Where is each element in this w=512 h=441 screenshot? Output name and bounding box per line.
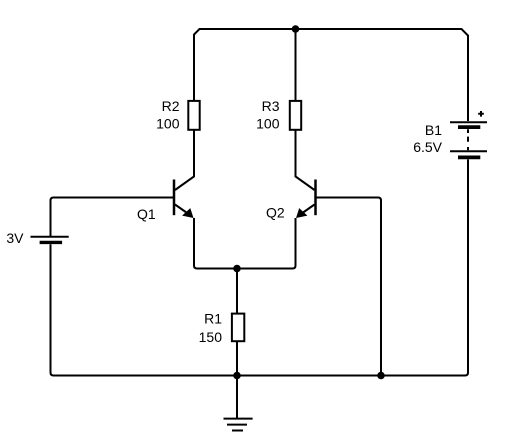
svg-text:Q1: Q1 xyxy=(137,206,156,222)
svg-text:3V: 3V xyxy=(6,230,24,246)
svg-text:Q2: Q2 xyxy=(266,205,285,221)
svg-text:R1: R1 xyxy=(204,311,222,327)
svg-text:R3: R3 xyxy=(262,98,280,114)
svg-text:R2: R2 xyxy=(162,98,180,114)
svg-text:150: 150 xyxy=(199,329,223,345)
svg-text:6.5V: 6.5V xyxy=(413,139,442,155)
svg-text:B1: B1 xyxy=(425,122,442,138)
svg-text:100: 100 xyxy=(256,116,280,132)
svg-text:100: 100 xyxy=(156,116,180,132)
